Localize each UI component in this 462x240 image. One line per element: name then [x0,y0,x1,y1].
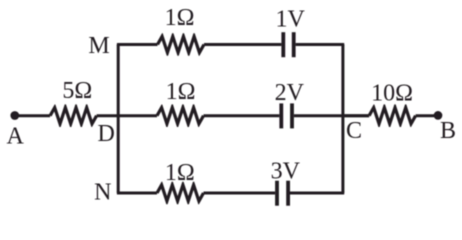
wire bottom 1-ohm to 3V cell [204,192,276,195]
resistor 1 ohm (middle branch) [156,104,205,127]
svg-text:1Ω: 1Ω [165,160,195,186]
node C label [346,118,362,144]
wire 2V cell to node C [294,114,369,117]
resistor 1 ohm (top branch) [156,33,205,56]
wire bottom branch N corner to 1-ohm [117,192,157,195]
svg-text:N: N [94,180,111,206]
svg-text:5Ω: 5Ω [62,78,92,104]
svg-text:1V: 1V [276,6,306,32]
battery cell 2V (drawn as two plates) [281,103,292,128]
value label 1 ohm (bottom) [165,160,195,186]
svg-text:B: B [440,118,456,144]
node D label [98,121,115,147]
svg-text:M: M [88,33,109,59]
svg-text:C: C [346,118,362,144]
wire 5-ohm to node D [97,114,157,117]
node N label [94,180,111,206]
resistor 5 ohm [49,104,98,127]
svg-text:10Ω: 10Ω [371,80,413,106]
wire node C to 10-ohm resistor [343,114,369,117]
value label 2V [275,80,305,106]
node M label [88,33,109,59]
wire top branch corner M to 1-ohm [117,43,158,46]
wire A to 5-ohm resistor [15,114,50,117]
svg-text:D: D [98,121,115,147]
wire top 1-ohm to 1V cell [204,43,281,46]
value label 1 ohm (top) [165,5,195,31]
value label 1 ohm (middle) [166,79,196,105]
wire middle 1-ohm to 2V cell [204,114,280,117]
svg-text:1Ω: 1Ω [166,79,196,105]
battery cell 1V (drawn as two plates) [283,32,293,57]
value label 1V [276,6,306,32]
wire 3V cell to right bus [290,192,344,195]
node B terminal dot [434,111,443,120]
node A label [7,123,25,149]
wire 1V cell to right bus [296,43,345,46]
value label 10 ohm [371,80,413,106]
wire right vertical bus through C [341,45,344,194]
resistor 10 ohm [368,104,417,127]
value label 5 ohm [62,78,92,104]
svg-text:1Ω: 1Ω [165,5,195,31]
svg-text:2V: 2V [275,80,305,106]
wire left vertical bus M-D-N [117,45,120,194]
value label 3V [271,158,301,184]
wire 10-ohm to node B [416,114,438,117]
node B label [440,118,456,144]
svg-text:3V: 3V [271,158,301,184]
node A terminal dot [10,111,19,120]
resistor 1 ohm (bottom branch) [156,182,205,205]
battery cell 3V (drawn as two plates) [277,181,288,206]
svg-text:A: A [7,123,25,149]
